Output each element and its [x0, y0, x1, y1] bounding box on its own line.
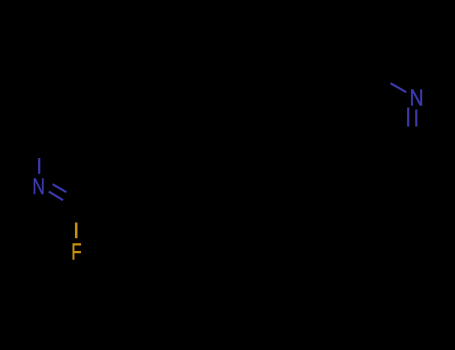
svg-text:N: N — [32, 175, 45, 200]
left pyridine ring: double bond N1=C2 inner line (nitrogen half, blue) — [53, 184, 67, 192]
right pyridine ring: double bond N1=C2 main line (nitrogen half, blue) — [415, 110, 417, 127]
svg-text:F: F — [71, 240, 81, 265]
bond C2-F (fluorine half, gold) — [75, 223, 78, 239]
right pyridine ring: bond C6-N1 (nitrogen half, blue) — [391, 83, 407, 92]
right pyridine ring: double bond N1=C2 inner line (nitrogen half, blue) — [407, 108, 409, 127]
left pyridine ring: bond N1-C6 (nitrogen half, blue) — [38, 158, 40, 174]
left pyridine ring: double bond N1=C2 main line (nitrogen half, blue) — [49, 192, 63, 201]
svg-text:N: N — [409, 85, 423, 111]
